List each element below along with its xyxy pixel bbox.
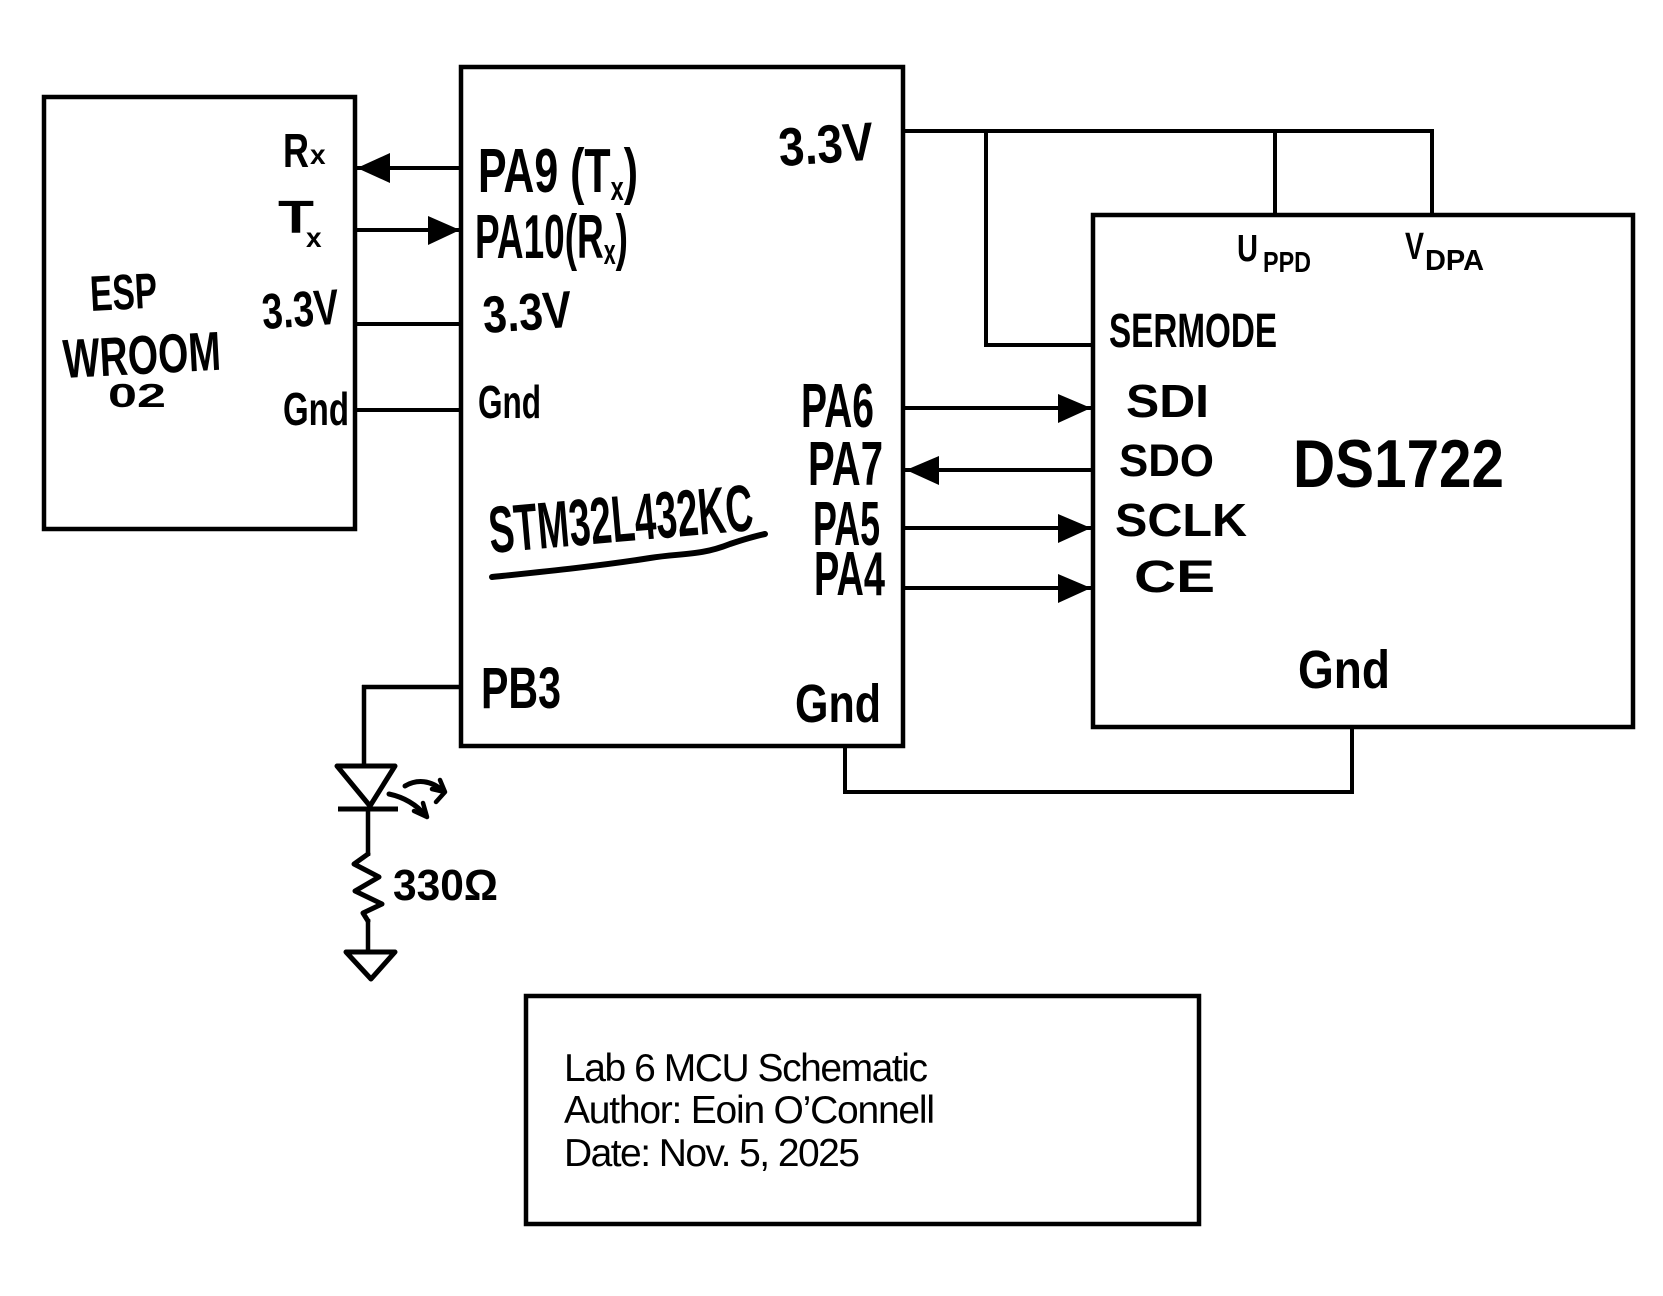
svg-text:PA7: PA7 (808, 430, 883, 499)
wire 3.3V from STM right edge (horizontal top) (903, 129, 1432, 133)
svg-text:PPD: PPD (1263, 247, 1311, 279)
wire VDDD drop (vertical) (1273, 129, 1277, 215)
wire ESP Tx to PA10(Rx) with arrowhead (355, 216, 461, 245)
title block text (564, 1047, 935, 1175)
pin label PA5 (813, 490, 880, 559)
svg-text:PA4: PA4 (814, 540, 885, 609)
svg-text:Gnd: Gnd (478, 376, 541, 428)
svg-text:02: 02 (108, 377, 166, 414)
wire Gnd DS1722 rise (vertical) (1350, 727, 1354, 794)
svg-text:Lab 6 MCU Schematic: Lab 6 MCU Schematic (564, 1047, 928, 1090)
wire Gnd horizontal STM to DS1722 (843, 790, 1354, 794)
svg-text:Gnd: Gnd (283, 383, 349, 435)
svg-text:SDO: SDO (1119, 435, 1214, 486)
svg-text:SCLK: SCLK (1115, 494, 1247, 546)
pin label Gnd (ESP) (283, 383, 349, 435)
wire Gnd STM drop (vertical) (843, 746, 847, 794)
wire VDDA drop (vertical) (1430, 129, 1434, 215)
wire Gnd ESP to STM (355, 408, 461, 412)
resistor R1 330 ohm zigzag (354, 854, 382, 921)
svg-text:3.3V: 3.3V (777, 112, 876, 178)
label STM32L432KC (486, 470, 756, 567)
label DS1722 (1293, 426, 1504, 502)
pin label CE (1134, 551, 1215, 602)
pin label VDDD (1237, 228, 1311, 279)
pin label SDI (1126, 375, 1209, 427)
label 330 ohm (393, 861, 498, 910)
svg-text:3.3V: 3.3V (481, 281, 574, 345)
pin label Tx (ESP) (278, 191, 322, 253)
svg-text:Gnd: Gnd (795, 674, 881, 734)
svg-text:3.3V: 3.3V (260, 279, 341, 340)
ESP WROOM 02 module box (44, 97, 355, 529)
pin label PA6 (801, 372, 874, 441)
svg-text:DS1722: DS1722 (1293, 426, 1504, 502)
LED light emission arrows (389, 780, 445, 817)
svg-text:SDI: SDI (1126, 375, 1209, 427)
LED D1 (triangle + cathode bar) (337, 766, 398, 809)
svg-text:PB3: PB3 (481, 656, 561, 721)
svg-text:ESP: ESP (89, 263, 159, 322)
pin label SDO (1119, 435, 1214, 486)
svg-text:U: U (1237, 228, 1258, 270)
pin label 3.3V (ESP) (260, 279, 341, 340)
svg-text:x: x (306, 222, 322, 253)
pin label 3.3V (STM top right) (777, 112, 876, 178)
svg-text:Date: Nov. 5, 2025: Date: Nov. 5, 2025 (564, 1132, 860, 1175)
pin label PA4 (814, 540, 885, 609)
ground symbol (346, 952, 395, 979)
MCU box STM32L432KC (461, 67, 903, 746)
pin label PA7 (808, 430, 883, 499)
pin label PA9 (Tx) (478, 137, 638, 208)
wire PB3 horizontal (362, 685, 461, 690)
pin label Rx (ESP) (283, 125, 326, 178)
wire PB3 drop to LED (vertical) (362, 685, 367, 766)
pin label PB3 (481, 656, 561, 721)
wire LED to resistor (366, 809, 371, 856)
wire 3.3V ESP to STM (355, 322, 461, 326)
wire 3.3V drop to SERMODE (vertical) (984, 129, 988, 347)
svg-text:Gnd: Gnd (1298, 640, 1390, 700)
wire resistor to ground (366, 919, 371, 953)
svg-text:V: V (1405, 226, 1424, 268)
svg-text:CE: CE (1134, 551, 1215, 602)
wire PA5 to SCLK with arrowhead (903, 514, 1093, 543)
underline under STM32L432KC (492, 534, 765, 577)
svg-text:DPA: DPA (1425, 245, 1484, 277)
DS1722 temperature sensor box (1093, 215, 1633, 727)
pin label VDDA (1405, 226, 1484, 277)
pin label SCLK (1115, 494, 1247, 546)
wire PA9(Tx) to ESP Rx with arrowhead (355, 153, 461, 183)
pin label Gnd (DS1722) (1298, 640, 1390, 700)
pin label Gnd (STM bottom right) (795, 674, 881, 734)
svg-text:R: R (283, 125, 309, 178)
label ESP WROOM 02 (61, 263, 222, 414)
svg-text:330Ω: 330Ω (393, 861, 498, 910)
pin label PA10 (Rx) (475, 203, 628, 272)
wire PA4 to CE with arrowhead (903, 574, 1093, 603)
wire SDO to PA7 with arrowhead (903, 456, 1093, 485)
wire PA6 to SDI with arrowhead (903, 394, 1093, 423)
pin label 3.3V (STM left) (481, 281, 574, 345)
wire SERMODE horizontal into DS1722 (984, 343, 1093, 347)
pin label SERMODE (1109, 305, 1277, 358)
pin label Gnd (STM left) (478, 376, 541, 428)
svg-text:SERMODE: SERMODE (1109, 305, 1277, 358)
title block box (526, 996, 1199, 1224)
svg-text:Author: Eoin O’Connell: Author: Eoin O’Connell (564, 1089, 935, 1132)
svg-text:x: x (310, 139, 326, 170)
